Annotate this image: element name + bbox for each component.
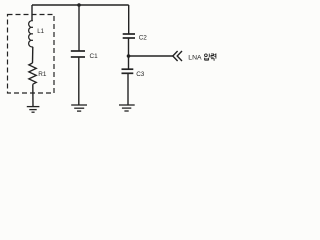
ground (right, below C3) (119, 105, 135, 111)
wire (left riser from L1 to top bus) (31, 5, 33, 21)
svg-text:C3: C3 (136, 71, 145, 78)
resistor R1 (29, 63, 37, 84)
wire (C1 top lead) (78, 5, 80, 51)
wire (R1 bottom lead to ground) (32, 84, 34, 106)
wire (horizontal tap to LNA) (129, 55, 174, 57)
capacitor C2 (123, 34, 135, 38)
ground (middle, below C1) (71, 105, 87, 111)
wire (junction to C3) (128, 56, 130, 69)
node (junction dot at LNA tap) (127, 54, 131, 58)
svg-text:C1: C1 (90, 53, 99, 60)
wire (C3 bottom lead to ground) (127, 74, 129, 105)
label 입력 (hangul, drawn) (205, 53, 216, 60)
ground (left, below R1) (27, 107, 40, 113)
wire (C1 bottom lead to ground) (78, 57, 80, 104)
svg-text:LNA: LNA (188, 54, 202, 61)
inductor L1 (29, 21, 33, 47)
node (junction dot at C1 tee) (77, 3, 81, 7)
wire (between C2 and junction) (128, 38, 130, 56)
dashed matching-network box (8, 15, 55, 94)
wire (top bus) (32, 4, 129, 6)
wire (between L1 and R1) (32, 47, 34, 63)
capacitor C1 (71, 51, 85, 57)
capacitor C3 (122, 69, 134, 73)
svg-text:L1: L1 (37, 28, 44, 35)
wire (right drop from top bus to C2) (128, 5, 130, 34)
svg-text:R1: R1 (38, 71, 47, 78)
svg-text:C2: C2 (139, 34, 148, 41)
connector arrow (double chevron) (173, 51, 182, 61)
